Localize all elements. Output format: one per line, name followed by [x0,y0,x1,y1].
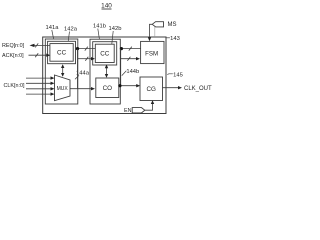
svg-text:MUX: MUX [57,86,69,92]
svg-text:FSM: FSM [145,50,158,57]
svg-text:REQ[n:0]: REQ[n:0] [2,43,25,49]
wire CLK input 2 [26,82,55,85]
svg-text:EN: EN [124,108,132,114]
label 141a with leader [46,25,60,39]
node junction dot at column2 right upper [120,47,123,50]
svg-text:ACK[n:0]: ACK[n:0] [2,53,24,59]
svg-text:CLK_OUT: CLK_OUT [184,86,212,92]
clock gate CG 145 [140,77,163,101]
wire CG to CLK_OUT with arrowhead [163,86,183,89]
svg-text:140: 140 [101,2,112,9]
svg-text:MS: MS [168,22,177,28]
wire CLK input 1 [26,76,55,79]
wire vertical branch column2 down to CO output [120,49,122,86]
wire REQ with left arrowhead and bus slash [30,43,50,47]
wire faint stub below MS tag [154,27,156,37]
label 142a with leader [64,27,78,42]
input tag MS [152,22,176,29]
channel column 141a outer rect [45,39,78,104]
svg-text:CLK[n:0]: CLK[n:0] [4,83,25,89]
wire column2 to FSM lower with arrowhead and slash [120,57,140,61]
svg-text:CO: CO [103,85,113,92]
label 143 with leader [166,36,180,42]
channel column 141b outer rect [90,39,120,104]
label 141b with leader [93,24,106,39]
svg-text:CC: CC [100,51,110,58]
svg-text:142a: 142a [64,27,78,33]
clock controller CC1 inner rect with label [50,44,73,62]
svg-text:145: 145 [173,72,183,78]
node junction dot at CC1 output [76,47,79,50]
label 144a with leader [75,70,90,79]
input tag EN [124,108,145,114]
vertical double arrow CC1 to MUX [61,64,64,77]
svg-text:141a: 141a [46,25,60,31]
wire column1 to column2 lower with arrowhead and slash [78,57,95,61]
svg-text:CC: CC [57,50,67,57]
wire ACK with right arrowhead and bus slash [29,53,51,57]
wire EN to CG with up arrowhead [145,100,154,110]
label 144b with leader [122,69,139,76]
wire CC1 to CC2 upper with bus slash [76,47,95,51]
wire CLK input 4 [26,92,55,95]
clock controller CC2 inner rect with label [95,44,114,62]
wire CO output to CG with arrowhead [119,84,140,87]
svg-text:141b: 141b [93,24,106,30]
label 145 with leader [167,72,183,78]
svg-text:CG: CG [146,86,156,93]
vertical double arrow CC2 to CO [105,64,108,77]
node 140 title [101,2,112,9]
clock management unit outer box 140 [43,37,166,114]
svg-text:144b: 144b [126,69,139,75]
finite state machine FSM 143 [141,41,164,63]
svg-text:143: 143 [170,36,180,42]
clock controller CC2 142b outer rect [93,42,117,65]
wire CC2 to FSM upper with bus slash [122,47,141,51]
node junction dot at CO output [118,84,121,87]
clock controller CC1 142a outer rect [48,41,76,63]
wire vertical branch CC1 junction down to mux output [77,49,79,89]
svg-text:142b: 142b [109,26,122,32]
svg-text:144a: 144a [76,70,90,76]
wire CLK input 3 [26,87,55,90]
wire MUX output to CO with arrowhead [70,87,95,90]
wire MS to FSM with down arrowhead [148,24,152,41]
label 142b with leader [109,26,122,44]
clock observer CO 144b [96,78,119,98]
multiplexer MUX 144a [55,75,71,101]
